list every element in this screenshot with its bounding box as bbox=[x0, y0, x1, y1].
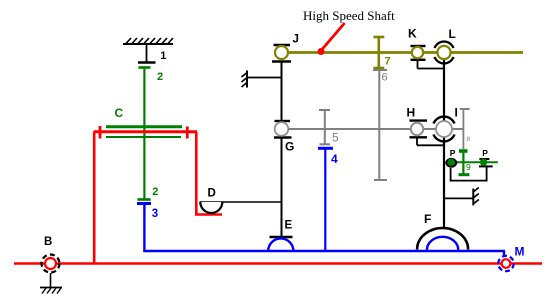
svg-text:E: E bbox=[285, 220, 293, 232]
svg-text:High Speed Shaft: High Speed Shaft bbox=[303, 8, 395, 23]
svg-text:3: 3 bbox=[152, 208, 158, 220]
svg-text:G: G bbox=[285, 140, 294, 154]
svg-text:4: 4 bbox=[331, 152, 338, 166]
svg-text:8: 8 bbox=[467, 136, 471, 143]
svg-text:9: 9 bbox=[466, 162, 471, 172]
svg-text:7: 7 bbox=[385, 56, 391, 68]
svg-text:2: 2 bbox=[152, 186, 158, 198]
svg-text:6: 6 bbox=[382, 72, 388, 84]
svg-text:D: D bbox=[208, 188, 216, 200]
svg-text:5: 5 bbox=[332, 131, 339, 145]
svg-text:P: P bbox=[450, 148, 456, 158]
svg-text:1: 1 bbox=[160, 50, 166, 62]
svg-text:C: C bbox=[115, 106, 124, 120]
svg-text:P: P bbox=[482, 148, 488, 158]
svg-text:B: B bbox=[44, 236, 52, 248]
svg-text:H: H bbox=[407, 106, 416, 120]
svg-text:I: I bbox=[455, 106, 458, 120]
svg-text:L: L bbox=[449, 27, 456, 41]
svg-text:F: F bbox=[424, 212, 431, 226]
svg-text:K: K bbox=[408, 27, 417, 41]
svg-text:M: M bbox=[515, 245, 525, 259]
svg-text:2: 2 bbox=[157, 71, 163, 83]
svg-text:J: J bbox=[293, 34, 299, 46]
